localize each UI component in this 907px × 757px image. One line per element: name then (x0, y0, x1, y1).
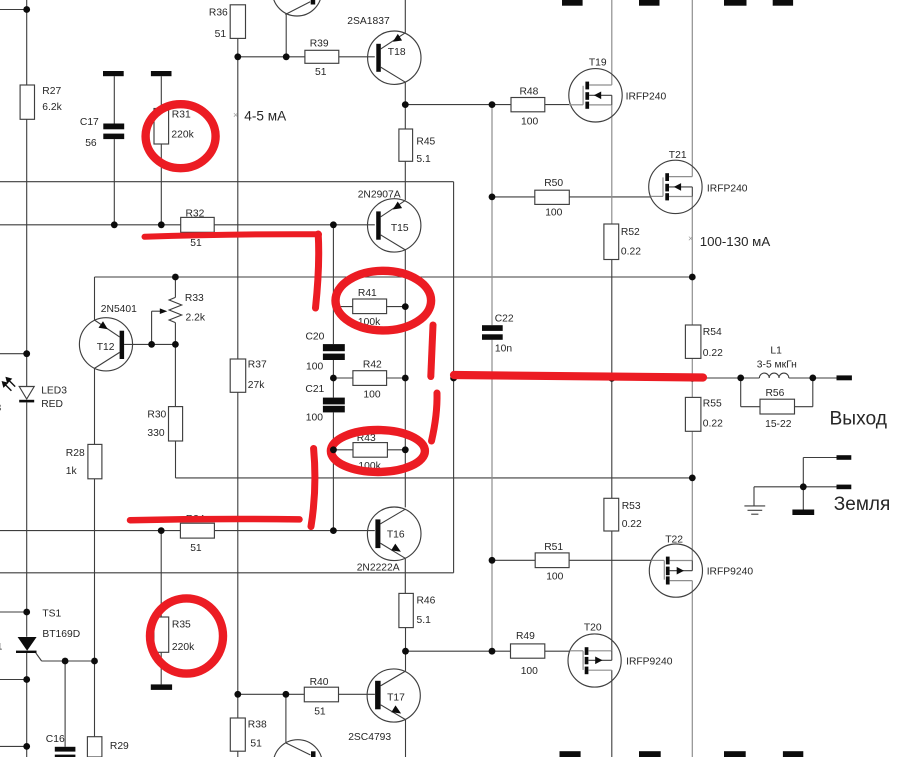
junction node (26.7,679.5) (23, 676, 30, 683)
svg-text:R50: R50 (544, 178, 563, 189)
svg-text:0.22: 0.22 (703, 348, 723, 359)
wire line y=477.9 (176, 477, 693, 479)
svg-text:T22: T22 (665, 535, 683, 546)
svg-text:51: 51 (315, 67, 327, 78)
junction node (151.6,344.4) (148, 341, 155, 348)
junction node (492,651.2) (489, 648, 496, 655)
svg-text:5.1: 5.1 (417, 615, 432, 626)
transistor T18 2SA1837 (368, 31, 421, 84)
wire R36/R37/R38 column x=237.8 (237, 38, 239, 359)
svg-text:4-5 мА: 4-5 мА (244, 108, 287, 123)
svg-text:51: 51 (190, 543, 202, 554)
wire box right border x=453.6 (453, 182, 455, 573)
svg-text:T18: T18 (388, 47, 406, 58)
wire R33/R30 column x=175.4 (174, 277, 176, 297)
wire rail x=611.8 (611, 0, 613, 85)
svg-text:Земля: Земля (834, 494, 890, 515)
ground bar under R35 (151, 684, 172, 690)
red circle around R41 (336, 271, 432, 331)
svg-text:IRFP9240: IRFP9240 (626, 656, 673, 667)
resistor R55 (685, 397, 701, 431)
transistor T12 2N5401 (79, 318, 132, 371)
resistor R42 (353, 371, 387, 386)
red stroke vertical right of R34 line (311, 449, 315, 527)
svg-text:R37: R37 (248, 360, 267, 371)
svg-text:T20: T20 (584, 623, 602, 634)
svg-text:C21: C21 (305, 384, 324, 395)
svg-text:LED3: LED3 (41, 385, 67, 396)
svg-text:×: × (688, 234, 693, 244)
wire stub to left edge y=679.5 (0, 679, 27, 681)
wire line y=56.8 (238, 56, 305, 58)
svg-text:3-5 мкГн: 3-5 мкГн (757, 360, 797, 371)
junction node (333.4,224.8) (330, 221, 337, 228)
wire base line T15 y=224.8 (0, 224, 181, 226)
svg-text:2SA1837: 2SA1837 (347, 16, 390, 27)
svg-text:C20: C20 (306, 332, 325, 343)
svg-text:6.2k: 6.2k (42, 102, 62, 113)
svg-text:100: 100 (545, 208, 562, 219)
wire T12 collector riser x=94.5 (94, 277, 96, 320)
svg-text:IRFP240: IRFP240 (626, 92, 667, 103)
wire T16 emitter to R46 (404, 559, 406, 594)
junction node (692.3,277) (689, 274, 696, 281)
wire left rail x=26.7 (26, 0, 28, 85)
svg-text:IRFP9240: IRFP9240 (707, 566, 754, 577)
wire T15 collector / central column x=405.3 (404, 250, 406, 507)
svg-text:T16: T16 (387, 529, 405, 540)
wire C16 column x=64.9 (64, 661, 66, 747)
resistor R38 (230, 718, 245, 751)
junction node (405.3,306.6) (402, 303, 409, 310)
thyristor TS1 BT169D (18, 637, 37, 651)
svg-text:R42: R42 (363, 359, 382, 370)
resistor R30 (169, 407, 183, 441)
svg-text:1: 1 (0, 642, 2, 653)
svg-text:R39: R39 (310, 38, 329, 49)
wire stub to left edge y=9.5 (0, 9, 27, 11)
svg-text:100-130 мА: 100-130 мА (700, 234, 771, 249)
svg-text:R55: R55 (703, 399, 722, 410)
svg-text:R38: R38 (248, 719, 267, 730)
svg-text:100: 100 (521, 666, 538, 677)
LED3 RED (8, 380, 15, 387)
svg-text:C22: C22 (495, 314, 514, 325)
resistor R43 (353, 443, 387, 458)
terminal above R31 (151, 71, 172, 76)
resistor R36 (230, 5, 245, 39)
svg-text:R41: R41 (358, 288, 377, 299)
wire R46 to T17 collector junction (405, 628, 407, 652)
junction node (26.7,353.7) (23, 350, 30, 357)
junction node (692.3,477.9) (689, 475, 696, 482)
svg-text:51: 51 (215, 29, 227, 40)
wire mid column x=333.9 with C20/C21 (332, 225, 334, 344)
resistor R39 (305, 50, 339, 63)
wire stub to left edge y=353.7 (0, 353, 27, 355)
transistor bottom cut (273, 740, 322, 757)
resistor R54 (685, 325, 701, 358)
junction node (405.3,449.8) (402, 446, 409, 453)
svg-text:0.22: 0.22 (703, 418, 723, 429)
wire R45 column x=405.3 (404, 105, 406, 129)
wire base line T16 y=530.6 (0, 530, 180, 532)
red circle around R35 (150, 598, 223, 673)
capacitor C22 (482, 325, 503, 331)
junction node (175.4,344.4) (172, 341, 179, 348)
resistor R35 (154, 617, 169, 652)
wire gate line T19 y=104.6 (405, 104, 511, 106)
junction node (492,560.3) (489, 557, 496, 564)
capacitor C20 (323, 344, 345, 351)
svg-text:0.22: 0.22 (621, 247, 641, 258)
svg-text:C17: C17 (80, 117, 99, 128)
resistor R28 (88, 444, 102, 478)
svg-text:T19: T19 (589, 57, 607, 68)
junction node (333.4,449.8) (330, 446, 337, 453)
svg-text:R46: R46 (417, 596, 436, 607)
wire R56 branch (740, 378, 742, 407)
wire bottom transistor emitter x=285.9 (285, 694, 287, 742)
wire gate line T22 y=560.3 (492, 559, 535, 561)
junction node (453.6,378) (450, 375, 457, 382)
wire output ground links (803, 457, 836, 459)
svg-text:×: × (233, 110, 238, 120)
resistor R56 (760, 399, 795, 414)
transistor T15 2N2907A (368, 199, 421, 252)
svg-text:R36: R36 (209, 7, 228, 18)
junction node (492,104.6) (489, 101, 496, 108)
junction node (237.8,694.3) (234, 691, 241, 698)
resistor R52 (604, 224, 619, 260)
svg-text:R27: R27 (42, 86, 61, 97)
junction node (161.3,224.8) (158, 221, 165, 228)
junction node (175.4,277) (172, 274, 179, 281)
svg-text:T15: T15 (391, 223, 409, 234)
junction node (333.4,378) (330, 375, 337, 382)
wire box top border y=181.7 (0, 181, 454, 183)
svg-text:TS1: TS1 (42, 608, 61, 619)
resistor R51 (535, 553, 569, 568)
potentiometer R33 2.2k zigzag (169, 297, 182, 322)
svg-text:R49: R49 (516, 631, 535, 642)
resistor R53 (604, 498, 619, 531)
wire column x=492 with C22 (491, 105, 493, 326)
wire base line T17 y=694.3 (238, 693, 304, 695)
svg-text:R32: R32 (186, 208, 205, 219)
arrow R33 wiper (160, 308, 168, 314)
junction node (94.5,661) (91, 658, 98, 665)
svg-text:100: 100 (521, 117, 538, 128)
junction node (26.7,9.5) (23, 6, 30, 13)
svg-text:BT169D: BT169D (42, 629, 80, 640)
svg-text:R54: R54 (703, 327, 722, 338)
wire stub to left edge y=612 (0, 611, 27, 613)
junction node (405.3,378) (402, 375, 409, 382)
resistor R45 (399, 129, 413, 161)
capacitor C21 (323, 398, 345, 405)
junction node (740.7,377.9) (737, 375, 744, 382)
junction node (405.5,651.2) (402, 648, 409, 655)
output terminal (837, 375, 852, 380)
svg-text:R48: R48 (520, 86, 539, 97)
junction node (492,196.9) (489, 194, 496, 201)
resistor R29 (87, 737, 102, 757)
junction node (286.2,56.8) (283, 53, 290, 60)
ground earth symbol (744, 505, 765, 507)
wire TS1 gate line y=660.5 (36, 653, 42, 661)
svg-text:100: 100 (546, 572, 563, 583)
red line above R34 (130, 519, 300, 520)
wire output line y=378 (454, 377, 760, 379)
svg-text:5.1: 5.1 (416, 154, 431, 165)
wire rail line y=277 (95, 276, 693, 278)
transistor T16 2N2222A (367, 507, 421, 561)
wire gate line T21 y=196.9 (492, 196, 535, 198)
red line under R32 (145, 234, 320, 237)
wire T12 base y=344.4 (124, 343, 175, 345)
mosfet T20 IRFP9240 (568, 634, 621, 687)
svg-text:R56: R56 (766, 388, 785, 399)
svg-text:51: 51 (190, 238, 202, 249)
junction node (26.7,746.4) (23, 743, 30, 750)
capacitor C17 (103, 71, 124, 76)
svg-text:10n: 10n (495, 344, 512, 355)
transistor top cut (272, 0, 321, 16)
junction node (803.3,486.8) (800, 483, 807, 490)
red circle around R43 (331, 430, 425, 472)
svg-text:R40: R40 (310, 677, 329, 688)
junction node (333.4,530.6) (330, 527, 337, 534)
resistor R46 (399, 593, 413, 627)
top edge supply terminals (562, 0, 583, 6)
wire T18 collector x=405.3 (404, 82, 406, 105)
mosfet T19 IRFP240 (569, 69, 622, 122)
wire T18 emitter up x=405.3 (404, 0, 406, 33)
resistor R50 (535, 190, 570, 204)
wire stub to left edge y=746.4 (0, 745, 27, 747)
junction node (237.8,56.8) (234, 53, 241, 60)
svg-text:2.2k: 2.2k (186, 312, 206, 323)
wire R35 column x=161.2 (160, 531, 162, 617)
svg-text:51: 51 (250, 738, 262, 749)
red line over output wire (454, 375, 703, 378)
mosfet T21 IRFP240 (649, 160, 702, 213)
svg-text:L1: L1 (770, 346, 782, 357)
wire R31 column x=161.3 (160, 76, 162, 108)
junction node (161.2,530.6) (158, 527, 165, 534)
svg-text:R28: R28 (66, 448, 85, 459)
junction node (812.8,377.9) (809, 375, 816, 382)
junction node (65.1,661) (62, 658, 69, 665)
red circle around R31 (146, 104, 216, 168)
svg-text:R30: R30 (147, 409, 166, 420)
svg-text:2N2222A: 2N2222A (357, 562, 400, 573)
svg-text:R31: R31 (172, 110, 191, 121)
red stroke diagonal upper right of R43 (431, 325, 433, 377)
svg-text:220k: 220k (171, 130, 194, 141)
resistor R31 (154, 109, 169, 145)
svg-text:T21: T21 (669, 150, 687, 161)
resistor R32 (181, 217, 215, 232)
svg-text:15-22: 15-22 (765, 419, 792, 430)
svg-text:2N2907A: 2N2907A (358, 190, 401, 201)
svg-text:56: 56 (85, 138, 97, 149)
mosfet T22 IRFP9240 (649, 544, 702, 597)
junction node (285.9,694.3) (283, 691, 290, 698)
wire C17 column x=114.3 (113, 76, 115, 123)
svg-text:R33: R33 (185, 293, 204, 304)
svg-text:0.22: 0.22 (622, 519, 642, 530)
svg-text:R45: R45 (416, 137, 435, 148)
svg-text:T12: T12 (97, 342, 115, 353)
svg-text:2SC4793: 2SC4793 (348, 732, 391, 743)
junction node (26.7,612) (23, 609, 30, 616)
wire T12 emitter column x=94.5 with R28 (94, 368, 96, 444)
capacitor C16 (55, 747, 76, 752)
svg-text:1k: 1k (66, 466, 78, 477)
svg-text:51: 51 (314, 707, 326, 718)
wire box bottom border y=572.8 (0, 572, 454, 574)
svg-text:330: 330 (147, 428, 164, 439)
svg-text:100: 100 (306, 413, 323, 424)
junction node (611.8,378.3) (608, 375, 615, 382)
svg-text:100: 100 (363, 389, 380, 400)
resistor R48 (511, 98, 545, 112)
wire line y=651.2 to R49/T20 (406, 650, 511, 652)
resistor R49 (511, 644, 545, 658)
svg-text:2N5401: 2N5401 (101, 304, 137, 315)
wire rail x=692.3 (691, 0, 693, 177)
svg-text:R52: R52 (621, 227, 640, 238)
svg-text:Выход: Выход (830, 409, 887, 430)
svg-text:R29: R29 (110, 741, 129, 752)
svg-text:IRFP240: IRFP240 (707, 184, 748, 195)
junction node R43 left redrawn over red (330, 446, 337, 453)
resistor R41 (353, 299, 387, 314)
junction node (405.3,104.6) (402, 101, 409, 108)
svg-text:220k: 220k (172, 642, 195, 653)
wire T17 collector x=405.5 (405, 651, 407, 671)
inductor L1 (759, 373, 788, 378)
svg-text:T17: T17 (387, 692, 405, 703)
wire T17 emitter down x=405.5 (405, 720, 407, 757)
resistor R37 (230, 359, 246, 392)
wire R33 wiper arm (151, 311, 153, 344)
svg-text:R35: R35 (172, 619, 191, 630)
resistor R40 (304, 687, 338, 702)
svg-text:R51: R51 (544, 542, 563, 553)
transistor T17 2SC4793 (367, 669, 420, 722)
svg-text:27k: 27k (248, 380, 265, 391)
wire top transistor emitter x=286.2 (285, 14, 287, 57)
red stroke diagonal lower right of R43 (432, 393, 438, 441)
chassis ground bar (792, 510, 814, 516)
svg-text:R53: R53 (622, 501, 641, 512)
junction node (114.3,224.8) (111, 221, 118, 228)
bottom edge supply terminals (560, 751, 581, 757)
svg-text:RED: RED (41, 399, 63, 410)
resistor R27 (20, 85, 34, 119)
junction node (692.3,378.4) (689, 375, 696, 382)
red stroke vertical below R32 line (316, 234, 319, 308)
svg-text:C16: C16 (46, 734, 65, 745)
ground terminals (837, 455, 852, 460)
resistor R34 (180, 523, 214, 538)
svg-text:100: 100 (306, 361, 323, 372)
